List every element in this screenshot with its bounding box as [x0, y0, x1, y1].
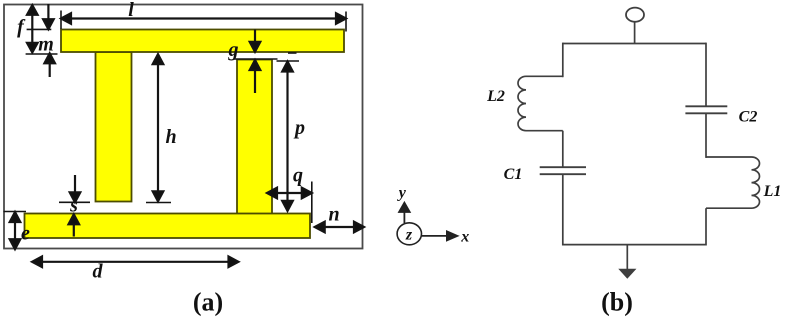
wire top [563, 43, 706, 45]
patch right bar [237, 60, 272, 238]
port circle [626, 8, 644, 22]
port stem wire [634, 22, 636, 44]
wire left middle [562, 131, 564, 168]
dimension e tick [4, 211, 27, 213]
wire bottom [563, 244, 706, 246]
wire left lower [562, 174, 564, 245]
dimension p dash [288, 52, 297, 54]
axis origin circle [397, 223, 421, 245]
wire right upper [705, 43, 707, 107]
svg-text:d: d [93, 261, 104, 283]
svg-text:C2: C2 [739, 109, 758, 126]
dimension g tick [234, 58, 278, 60]
dimension m down arrow [43, 4, 54, 29]
svg-text:z: z [405, 227, 413, 244]
patch bottom bar [25, 214, 311, 239]
inductor L2 [518, 76, 563, 130]
svg-text:m: m [38, 34, 54, 56]
ground stem wire [626, 245, 628, 270]
dimension l line [61, 13, 346, 24]
patch left stem [96, 52, 132, 202]
dimension q arrow [267, 188, 312, 199]
capacitor C2 [685, 106, 727, 113]
svg-text:L2: L2 [486, 88, 505, 105]
dimension p arrow [282, 62, 293, 211]
dimension l tick left [60, 11, 62, 30]
dimension p tick [277, 60, 300, 62]
dimension m tick bottom-of-bar [26, 53, 58, 55]
svg-text:x: x [460, 229, 469, 246]
svg-text:s: s [69, 195, 78, 217]
svg-text:q: q [293, 165, 303, 187]
svg-text:p: p [293, 117, 305, 139]
dimension l tick right [345, 12, 347, 32]
dimension s tick [59, 201, 90, 203]
svg-text:l: l [128, 0, 134, 21]
svg-text:e: e [21, 223, 30, 245]
dimension n arrow [315, 222, 364, 233]
svg-text:y: y [397, 185, 407, 202]
wire right lower [705, 208, 707, 245]
dimension f arrow [27, 5, 38, 52]
substrate boundary [4, 5, 363, 249]
ground symbol [619, 269, 635, 278]
dimension e arrow [10, 212, 21, 249]
axis y arrow [399, 203, 410, 223]
wire left upper [562, 43, 564, 78]
svg-text:g: g [228, 39, 239, 61]
dimension g down arrow [250, 30, 261, 52]
wire right middle [705, 113, 707, 158]
svg-text:(a): (a) [193, 288, 223, 317]
inductor L1 [706, 157, 760, 208]
svg-text:C1: C1 [504, 166, 523, 183]
patch top bar [61, 30, 344, 53]
dimension h tick [146, 202, 171, 204]
svg-text:n: n [328, 204, 339, 226]
dimension g up arrow [250, 60, 261, 93]
capacitor C1 [540, 167, 586, 174]
dimension h arrow [153, 54, 164, 201]
dimension s down arrow [70, 175, 81, 202]
dimension d arrow [32, 257, 239, 268]
axis x arrow [422, 231, 458, 240]
dimension s up arrow [69, 214, 80, 236]
svg-text:L1: L1 [763, 183, 782, 200]
dimension m up arrow [44, 53, 55, 77]
svg-text:h: h [165, 126, 176, 148]
dimension f tick top-of-bar [27, 28, 52, 30]
dimension q tick [311, 182, 313, 224]
svg-text:(b): (b) [601, 288, 633, 317]
